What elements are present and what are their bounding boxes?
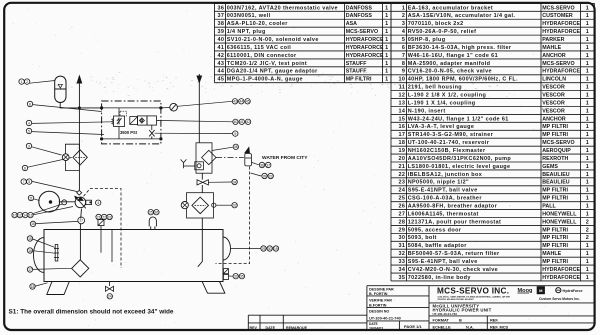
thermostat well dip line [111, 230, 113, 263]
svg-text:34: 34 [233, 180, 237, 184]
svg-text:19: 19 [274, 247, 278, 251]
svg-text:1: 1 [385, 69, 388, 75]
svg-text:AA9500-8FH, breather adaptor: AA9500-8FH, breather adaptor [408, 204, 498, 210]
svg-text:HONEYWELL: HONEYWELL [542, 219, 577, 225]
svg-text:29: 29 [398, 227, 405, 233]
svg-text:22: 22 [398, 172, 405, 178]
svg-text:1: 1 [586, 69, 589, 75]
svg-text:CUSTOMER: CUSTOMER [542, 13, 573, 19]
balloon callout 4 [26, 120, 31, 125]
svg-text:17: 17 [28, 268, 32, 272]
svg-text:38: 38 [234, 145, 238, 149]
svg-text:1: 1 [586, 45, 589, 51]
svg-text:BEAULIEU: BEAULIEU [542, 172, 570, 178]
svg-text:B. FORTIN: B. FORTIN [369, 292, 388, 296]
svg-text:HYDRAFORCE: HYDRAFORCE [346, 45, 384, 51]
svg-text:1: 1 [586, 180, 589, 186]
svg-text:MCS-SERVO: MCS-SERVO [542, 5, 574, 11]
svg-text:1: 1 [385, 29, 388, 35]
svg-text:MCS-SERVO: MCS-SERVO [542, 140, 574, 146]
svg-text:2191, bell housing: 2191, bell housing [408, 85, 462, 91]
svg-text:BF50040-57-S-03A, return filte: BF50040-57-S-03A, return filter [408, 251, 500, 257]
balloon callout 39 [262, 173, 267, 178]
svg-text:37: 37 [266, 163, 270, 167]
leaders to coupling group [33, 204, 63, 214]
leader door balloons [230, 248, 260, 250]
svg-text:1: 1 [586, 172, 589, 178]
balloon callout 2 [24, 79, 29, 84]
balloon callout 30 [267, 246, 272, 251]
svg-text:5084, baffle adaptor: 5084, baffle adaptor [408, 243, 468, 249]
svg-text:1: 1 [385, 53, 388, 59]
leader to strainer [33, 268, 72, 269]
svg-text:N.A.: N.A. [466, 325, 474, 330]
svg-text:1: 1 [586, 164, 589, 170]
svg-text:39: 39 [217, 29, 224, 35]
leader water valve balloons [252, 163, 259, 165]
svg-text:PAGE 1/1: PAGE 1/1 [404, 324, 422, 329]
svg-text:REV: REV [250, 326, 258, 330]
svg-text:MP FILTRI: MP FILTRI [542, 243, 568, 249]
svg-text:1: 1 [586, 5, 589, 11]
svg-text:12: 12 [398, 93, 405, 99]
wire system return riser [196, 74, 202, 143]
svg-text:B.FORTIN: B.FORTIN [369, 304, 387, 308]
svg-text:REF. MCS: REF. MCS [490, 325, 509, 330]
title block frame [367, 286, 595, 330]
tank leg right [202, 282, 225, 294]
svg-text:ECHELLE: ECHELLE [433, 325, 452, 330]
svg-text:HYDRAFORCE: HYDRAFORCE [542, 29, 580, 35]
svg-text:1: 1 [586, 196, 589, 202]
svg-text:1: 1 [586, 100, 589, 106]
svg-text:10: 10 [13, 213, 17, 217]
suction strainer item 17 [72, 260, 89, 277]
svg-text:5: 5 [28, 129, 30, 133]
return filter element dashed [195, 204, 206, 206]
wire tank rail [102, 138, 161, 140]
svg-text:25: 25 [398, 196, 405, 202]
svg-text:1: 1 [21, 80, 23, 84]
balloon callout 21 [96, 214, 101, 219]
balloon callout 13 [28, 212, 33, 217]
svg-text:L-190 1 X 1/4, coupling: L-190 1 X 1/4, coupling [408, 100, 476, 106]
svg-text:121371A, poult pour thermostat: 121371A, poult pour thermostat [408, 219, 502, 225]
svg-text:GEMS: GEMS [542, 164, 558, 170]
wire pressure rail [102, 107, 161, 109]
tank leg left [47, 282, 70, 295]
balloon callout 19 [273, 246, 278, 251]
svg-text:ASA: ASA [346, 21, 357, 27]
svg-text:W43-24-24U, flange 1 1/2" code: W43-24-24U, flange 1 1/2" code 61 [408, 116, 509, 122]
node manifold T left [100, 137, 103, 140]
balloon callout 18 [30, 284, 35, 289]
svg-text:33: 33 [398, 259, 405, 265]
svg-text:1: 1 [586, 53, 589, 59]
svg-text:RV50-26A-0-P-50, relief: RV50-26A-0-P-50, relief [408, 29, 477, 35]
svg-text:35: 35 [240, 275, 244, 279]
balloon callout 6 [22, 165, 27, 170]
balloon callout 10 [12, 212, 17, 217]
leader to level gauge [33, 251, 55, 254]
balloon callout 16 [30, 221, 35, 226]
svg-text:STAUFF: STAUFF [346, 69, 368, 75]
leader to motor [34, 199, 40, 201]
coupling item 12 [62, 200, 67, 205]
return filter indicator [181, 202, 188, 209]
pump check valve [77, 190, 82, 195]
svg-text:UT-100-40-21-740, reservoir: UT-100-40-21-740, reservoir [408, 140, 490, 146]
svg-text:24: 24 [108, 295, 112, 299]
svg-text:L6006A1145, thermostat: L6006A1145, thermostat [408, 211, 479, 217]
leader to suction [36, 221, 78, 223]
svg-text:1: 1 [586, 132, 589, 138]
svg-text:DESSINE PAR: DESSINE PAR [369, 287, 394, 291]
solenoid valve item 40 [130, 116, 161, 130]
svg-text:HYDRAFORCE: HYDRAFORCE [542, 267, 580, 273]
svg-text:5: 5 [28, 180, 30, 184]
leader cooler balloon [212, 147, 233, 150]
svg-text:1: 1 [586, 29, 589, 35]
svg-text:BEAULIEU: BEAULIEU [542, 180, 570, 186]
svg-text:ANCHOR: ANCHOR [542, 53, 566, 59]
leader to press filter [28, 158, 72, 168]
svg-text:HYDRAFORCE: HYDRAFORCE [346, 53, 384, 59]
svg-text:LS1800-01801, electric level g: LS1800-01801, electric level gauge [408, 164, 511, 170]
leader to tank [35, 283, 47, 286]
svg-text:PARKER: PARKER [542, 37, 564, 43]
reservoir item 18 [44, 230, 223, 282]
svg-text:25: 25 [149, 211, 153, 215]
svg-text:ANCHOR: ANCHOR [542, 116, 566, 122]
svg-text:32: 32 [398, 251, 405, 257]
svg-text:DESSIN NO: DESSIN NO [369, 310, 389, 314]
svg-text:22: 22 [102, 215, 106, 219]
svg-text:1: 1 [385, 61, 388, 67]
svg-text:10: 10 [398, 77, 405, 83]
svg-text:44: 44 [239, 100, 243, 104]
svg-text:UT-100-40-21-740: UT-100-40-21-740 [433, 312, 458, 316]
svg-text:IBELBSA12, junction box: IBELBSA12, junction box [408, 172, 482, 178]
leader to clog indicator [32, 147, 62, 155]
svg-text:23: 23 [398, 180, 405, 186]
svg-text:1: 1 [586, 259, 589, 265]
svg-text:11: 11 [399, 85, 406, 91]
leader to relief [32, 122, 112, 124]
balloon callout 42 [245, 119, 250, 124]
svg-text:3: 3 [28, 144, 30, 148]
svg-text:L-190 2 1/8 X 1/2, coupling: L-190 2 1/8 X 1/2, coupling [408, 93, 487, 99]
svg-text:1: 1 [586, 211, 589, 217]
svg-text:FORMAT: FORMAT [433, 318, 450, 323]
svg-text:NP05000, nipple 1/2": NP05000, nipple 1/2" [408, 180, 469, 186]
svg-text:ASA-PL10-20, cooler: ASA-PL10-20, cooler [227, 21, 289, 27]
relief valve item 4 [112, 108, 127, 139]
svg-text:VESCOR: VESCOR [542, 108, 565, 114]
balloon callout 44 [239, 99, 244, 104]
svg-text:MP FILTRI: MP FILTRI [542, 124, 568, 130]
wire to test point [161, 107, 170, 109]
balloon callout 7 [21, 179, 26, 184]
svg-text:MP FILTRI: MP FILTRI [346, 77, 372, 83]
svg-text:27: 27 [398, 211, 405, 217]
cooler item 38 [196, 143, 212, 173]
svg-text:MP FILTRI: MP FILTRI [542, 196, 568, 202]
svg-text:1234, BOUL. SAINT-MARTIN, ST-J: 1234, BOUL. SAINT-MARTIN, ST-JEAN-DE-MON… [437, 295, 510, 298]
svg-text:36: 36 [217, 5, 224, 11]
leader solenoid valve to balloons 40-42 [161, 121, 233, 122]
balloon callout 12 [17, 212, 22, 217]
svg-text:REXROTH: REXROTH [542, 156, 568, 162]
leader to level gauge top [33, 239, 55, 247]
wire accumulator branch [60, 103, 101, 108]
wire filter into tank [198, 218, 203, 267]
balloon callout 24 [107, 294, 112, 299]
balloon callout 37 [266, 162, 271, 167]
compensator box [86, 200, 92, 204]
svg-text:4: 4 [28, 121, 30, 125]
svg-text:39: 39 [263, 174, 267, 178]
balloon callout 15 [27, 236, 32, 241]
svg-text:DGA20-1/4 NPT, gauge adaptor: DGA20-1/4 NPT, gauge adaptor [227, 69, 318, 75]
svg-text:HYDRAFORCE: HYDRAFORCE [346, 37, 384, 43]
svg-text:7022580, in-line body: 7022580, in-line body [408, 275, 471, 281]
svg-text:1: 1 [586, 243, 589, 249]
balloon callout 11 [28, 195, 33, 200]
svg-text:1: 1 [385, 37, 388, 43]
svg-text:45: 45 [246, 100, 250, 104]
balloon callout 22 [101, 214, 106, 219]
svg-text:35: 35 [398, 275, 405, 281]
svg-text:05HP-8, plug: 05HP-8, plug [408, 37, 446, 43]
svg-text:1: 1 [586, 37, 589, 43]
svg-text:8: 8 [29, 102, 31, 106]
balloon callout 16 [27, 248, 32, 253]
drain valve [105, 282, 113, 292]
svg-text:1: 1 [586, 108, 589, 114]
svg-text:37: 37 [217, 13, 224, 19]
high pressure filter item 6 [73, 150, 87, 165]
svg-text:14: 14 [398, 108, 405, 114]
svg-text:MP FILTRI: MP FILTRI [542, 227, 568, 233]
wire water drain (dashed) [216, 167, 250, 264]
balloon callout 45 [245, 99, 250, 104]
leader check valve to balloon 9 [155, 132, 233, 134]
svg-text:REMARQUE: REMARQUE [286, 326, 308, 330]
balloon callout 8 [27, 101, 32, 106]
wire suction line [80, 209, 83, 219]
test point item 43 [170, 103, 178, 111]
svg-text:38: 38 [217, 21, 224, 27]
thermostatic valve item 36 [195, 162, 204, 170]
svg-text:MPG-1-P-4000-A-N, gauge: MPG-1-P-4000-A-N, gauge [227, 77, 303, 83]
svg-text:21: 21 [398, 164, 405, 170]
balloon callout 23 [107, 214, 112, 219]
svg-text:30: 30 [268, 247, 272, 251]
svg-text:MP FILTRI: MP FILTRI [542, 259, 568, 265]
svg-text:1: 1 [402, 5, 405, 11]
svg-text:16: 16 [28, 249, 32, 253]
svg-text:11: 11 [29, 196, 33, 200]
level gauge item 16 [54, 245, 59, 262]
svg-text:15: 15 [28, 237, 32, 241]
svg-text:MAHLE: MAHLE [542, 251, 561, 257]
svg-text:MP FILTRI: MP FILTRI [542, 188, 568, 194]
svg-text:1: 1 [586, 188, 589, 194]
svg-text:26: 26 [398, 204, 405, 210]
wire pressure riser to system [77, 75, 83, 150]
svg-text:15: 15 [398, 116, 405, 122]
svg-text:HYDRAFORCE: HYDRAFORCE [542, 69, 580, 75]
svg-text:29: 29 [262, 247, 266, 251]
svg-text:SV10-21-0-N-00, solenoid valve: SV10-21-0-N-00, solenoid valve [227, 37, 319, 43]
svg-text:9: 9 [402, 69, 405, 75]
svg-text:NH1602C150B, Flexmaster: NH1602C150B, Flexmaster [408, 148, 486, 154]
svg-text:VESCOR: VESCOR [542, 93, 565, 99]
svg-text:MCS-SERVO: MCS-SERVO [346, 29, 378, 35]
svg-text:Custom Servo Motors Inc.: Custom Servo Motors Inc. [539, 297, 580, 301]
balloon callout 3 [26, 143, 31, 148]
balloon callout 25 [148, 210, 153, 215]
revision strip REV DATE REMARQUE [248, 315, 367, 330]
balloon callout 36 [259, 162, 264, 167]
leader to manifold [33, 105, 102, 112]
balloon callout 14 [23, 212, 28, 217]
svg-text:14: 14 [23, 213, 27, 217]
balloon callout 4 [96, 200, 101, 205]
svg-text:30: 30 [398, 235, 405, 241]
wire suction line lower [79, 224, 81, 260]
balloon callout 32 [232, 203, 237, 208]
svg-text:1: 1 [586, 156, 589, 162]
balloon callout 43 [232, 99, 237, 104]
svg-text:1: 1 [385, 45, 388, 51]
svg-text:24: 24 [398, 188, 405, 194]
svg-text:23: 23 [108, 215, 112, 219]
svg-text:17: 17 [79, 219, 83, 223]
filter element dashed [75, 156, 85, 158]
balloon callout 35 [239, 274, 244, 279]
svg-text:1: 1 [586, 275, 589, 281]
svg-text:HydraForce: HydraForce [563, 289, 583, 293]
svg-text:42: 42 [217, 53, 224, 59]
svg-text:40: 40 [234, 120, 238, 124]
balloon callout 40 [233, 119, 238, 124]
svg-text:26: 26 [155, 211, 159, 215]
svg-text:WATER FROM CITY: WATER FROM CITY [262, 155, 308, 161]
svg-text:003N0051, well: 003N0051, well [227, 13, 271, 19]
balloon callout 38 [233, 144, 238, 149]
svg-text:1: 1 [385, 77, 388, 83]
svg-text:1: 1 [586, 267, 589, 273]
svg-text:1: 1 [586, 61, 589, 67]
svg-text:34: 34 [398, 267, 405, 273]
svg-text:16/04/01: 16/04/01 [369, 326, 383, 330]
svg-text:3: 3 [402, 21, 405, 27]
junction node [78, 106, 81, 109]
svg-text:DATE: DATE [266, 326, 276, 330]
svg-text:ASA-1SE/V10N, accumulator 1/4: ASA-1SE/V10N, accumulator 1/4 gal. [408, 13, 516, 19]
svg-text:2: 2 [586, 219, 589, 225]
leader accumulator [30, 81, 55, 84]
svg-text:1: 1 [385, 13, 388, 19]
level switch item 21 [98, 220, 104, 253]
svg-text:N-190, insert: N-190, insert [408, 108, 446, 114]
filter outlet port [212, 203, 216, 207]
svg-text:13: 13 [398, 100, 405, 106]
svg-text:9: 9 [234, 132, 236, 136]
svg-text:1: 1 [586, 85, 589, 91]
balloon callout 34 [232, 179, 237, 184]
svg-text:MP FILTRI: MP FILTRI [542, 132, 568, 138]
access door left item 29 [34, 238, 44, 273]
wire check to filter [201, 185, 203, 193]
svg-text:36: 36 [260, 163, 264, 167]
svg-text:33: 33 [234, 275, 238, 279]
svg-text:41: 41 [240, 120, 244, 124]
svg-text:TELEPH: 450-4400 PHONE: 450-: TELEPH: 450-4400 PHONE: 450-4567 [437, 298, 474, 301]
svg-text:S95-E-41NPT, ball valve: S95-E-41NPT, ball valve [408, 188, 478, 194]
balloon callout 17 [78, 217, 85, 224]
svg-text:EA-163, accumulator bracket: EA-163, accumulator bracket [408, 5, 493, 11]
svg-text:S1: The overall dimension shou: S1: The overall dimension should not exc… [9, 308, 174, 315]
svg-text:UT-100-40-21-740: UT-100-40-21-740 [369, 316, 401, 321]
balloon callout 41 [239, 119, 244, 124]
svg-text:5093, bolt: 5093, bolt [408, 235, 437, 241]
svg-text:AA10VSO45DR/31PKC62N00, pump: AA10VSO45DR/31PKC62N00, pump [408, 156, 512, 162]
svg-text:1: 1 [586, 251, 589, 257]
svg-text:42: 42 [246, 120, 250, 124]
svg-text:6366115, 115 VAC coil: 6366115, 115 VAC coil [227, 45, 292, 51]
svg-text:8: 8 [402, 61, 405, 67]
manifold block item 3 [102, 101, 161, 144]
leader water pipe balloons [251, 173, 262, 176]
svg-text:7070110, block 2x2: 7070110, block 2x2 [408, 21, 464, 27]
node manifold P out [159, 106, 162, 109]
svg-text:1: 1 [586, 124, 589, 130]
wire cooler to check valve [201, 173, 203, 179]
svg-text:2: 2 [26, 80, 28, 84]
svg-text:18: 18 [31, 285, 35, 289]
breather item 25 [149, 217, 156, 229]
svg-text:MCS-SERVO INC.: MCS-SERVO INC. [437, 286, 509, 295]
svg-text:CV16-20-0-N-05, check valve: CV16-20-0-N-05, check valve [408, 69, 492, 75]
svg-text:5: 5 [402, 37, 405, 43]
pump item 20 [74, 196, 86, 209]
balloon callout 9 [233, 131, 238, 136]
svg-text:23: 23 [269, 174, 273, 178]
svg-text:5095, access door: 5095, access door [408, 227, 462, 233]
MP Filtri logo black square [537, 286, 545, 294]
filter bypass loop [65, 144, 79, 170]
svg-text:LINCOLN: LINCOLN [542, 77, 566, 83]
leader to pump check valve [32, 181, 77, 191]
svg-text:MA-25900, adapter manifold: MA-25900, adapter manifold [408, 61, 491, 67]
svg-text:44: 44 [217, 69, 224, 75]
return filter item 32 [187, 193, 214, 218]
svg-text:HYDRAFORCE: HYDRAFORCE [542, 21, 580, 27]
svg-text:MAHLE: MAHLE [542, 45, 561, 51]
svg-text:1: 1 [586, 204, 589, 210]
svg-text:1: 1 [385, 5, 388, 11]
tank side valves items 33-35 [223, 269, 228, 280]
svg-text:19: 19 [398, 148, 405, 154]
svg-text:DANFOSS: DANFOSS [346, 5, 373, 11]
svg-text:2: 2 [586, 227, 589, 233]
balloon callout 29 [261, 246, 266, 251]
wire case drain (dashed) [84, 189, 122, 268]
parts list table items 36-45 [215, 3, 392, 82]
